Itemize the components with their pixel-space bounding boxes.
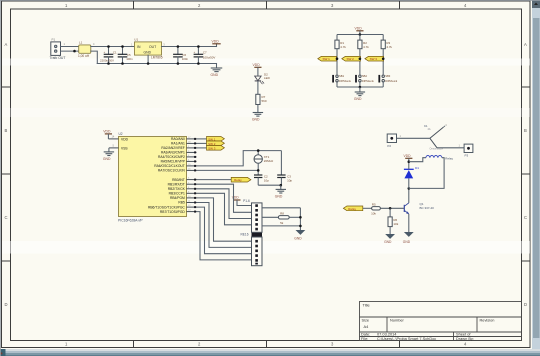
svg-text:RA2/AN2/VREF: RA2/AN2/VREF (161, 146, 184, 150)
wire header pin4 to R8 (262, 216, 278, 218)
svg-text:VDD: VDD (121, 137, 129, 141)
power VDD relay (404, 154, 413, 163)
resistor R6 10k (388, 208, 399, 234)
svg-text:Revision: Revision (480, 318, 495, 323)
wire R8 to gnd net (289, 216, 300, 218)
ground header (294, 230, 305, 240)
wire regulator OUT to VDD (162, 46, 217, 48)
svg-text:PIC16F628A-I/P: PIC16F628A-I/P (118, 219, 143, 223)
svg-text:VDD: VDD (103, 130, 111, 134)
transistor Q1 BC337-40 (404, 202, 434, 214)
svg-text:B: B (524, 128, 527, 133)
svg-text:1,00 uH: 1,00 uH (78, 54, 90, 58)
svg-text:RA6/OSC2/CLKOUT: RA6/OSC2/CLKOUT (154, 164, 185, 168)
svg-text:Number: Number (390, 318, 405, 323)
svg-text:Relay: Relay (445, 156, 453, 160)
svg-text:RB6/T1OSO/T1CKI/PGC: RB6/T1OSO/T1CKI/PGC (148, 205, 185, 209)
port Relay left (343, 206, 362, 211)
svg-text:A4: A4 (364, 324, 370, 329)
wire RB6 to header (197, 207, 252, 254)
ground mcu vss (103, 148, 114, 161)
wire RA1 to port (197, 142, 207, 144)
wire RB2 to header (197, 189, 252, 219)
wire R5 to base (380, 207, 404, 209)
svg-text:GND: GND (211, 73, 219, 77)
regulator U1 LM7805 (131, 38, 165, 65)
power VDD led (253, 63, 262, 76)
connector P1 Trafo OUT (50, 38, 66, 61)
button SB2 (355, 74, 374, 87)
svg-text:VDD: VDD (232, 196, 240, 200)
led D2 (255, 72, 271, 84)
light scan bands (2, 59, 530, 66)
svg-text:VDD: VDD (253, 63, 261, 67)
ground led (252, 113, 263, 122)
wire RB4 to header (197, 198, 252, 241)
svg-text:D: D (524, 302, 527, 307)
svg-text:5k: 5k (280, 221, 284, 225)
svg-text:LM7805: LM7805 (151, 56, 163, 60)
svg-text:RA0/AN0: RA0/AN0 (171, 137, 185, 141)
connector RE16 (241, 233, 263, 266)
wire RB7 to header (197, 212, 252, 260)
svg-text:OUT: OUT (149, 45, 156, 49)
ground xtal (275, 185, 286, 198)
button SB1 (332, 74, 351, 87)
wire port to R5 (363, 207, 372, 209)
svg-text:DIPMsunk: DIPMsunk (339, 79, 352, 83)
svg-text:C: C (5, 215, 8, 220)
svg-text:+: + (194, 50, 196, 54)
wire R7 to gnd (257, 105, 259, 113)
connector P1-6 (243, 199, 262, 232)
svg-text:C: C (524, 215, 527, 220)
resistor R3 4.7k (381, 35, 392, 75)
resistor R7 560 (256, 94, 267, 104)
svg-text:4.7k: 4.7k (386, 45, 392, 49)
svg-text:20MHz: 20MHz (264, 159, 274, 163)
wire collector up (408, 188, 410, 203)
svg-text:B: B (5, 128, 8, 133)
svg-text:P2: P2 (387, 144, 391, 148)
wire bridge lower out (91, 51, 98, 63)
svg-text:Size: Size (362, 318, 370, 323)
ground buttons (354, 87, 365, 101)
wire xtal right branch (280, 151, 282, 175)
svg-text:10p: 10p (287, 179, 292, 183)
svg-text:RB1/RX/DT: RB1/RX/DT (168, 182, 185, 186)
gnd rail psu (97, 63, 216, 65)
svg-text:P1: P1 (52, 38, 56, 42)
resistor R2 4.7k (358, 35, 369, 75)
svg-text:+: + (104, 50, 106, 54)
relay contact K1 (424, 124, 447, 150)
svg-text:100n: 100n (126, 57, 133, 61)
crystal XT1 20MHz (254, 149, 274, 175)
svg-text:SB3: SB3 (385, 74, 391, 78)
wire led to R7 (257, 81, 259, 94)
svg-text:4A: 4A (428, 128, 431, 131)
wire RA2 to port (197, 147, 207, 149)
svg-text:VSS: VSS (121, 146, 128, 150)
svg-text:D1: D1 (415, 166, 419, 170)
pin VSS 5 (109, 145, 119, 148)
svg-text:Relay: Relay (348, 207, 356, 211)
svg-text:U1: U1 (134, 38, 138, 42)
svg-text:VDD: VDD (212, 40, 220, 44)
port SW 2 left (342, 56, 361, 61)
svg-text:SB1: SB1 (339, 74, 345, 78)
svg-text:DIPMsunk: DIPMsunk (362, 79, 375, 83)
svg-text:P1-6: P1-6 (243, 199, 250, 203)
svg-text:C1: C1 (113, 50, 117, 54)
wire RB1 to header (197, 184, 252, 212)
relay coil K1 (409, 156, 454, 189)
capacitor C3 10p (277, 175, 292, 186)
wire RA6 to xtal top (197, 151, 282, 166)
wire RB3 to header (197, 193, 252, 225)
svg-text:4.7k: 4.7k (340, 45, 346, 49)
svg-text:RA1/AN1: RA1/AN1 (171, 142, 185, 146)
wire header pin6 right (262, 225, 300, 227)
svg-text:RA7/OSC1/CLKIN: RA7/OSC1/CLKIN (158, 169, 186, 173)
port SW 2 right (207, 141, 225, 146)
ground R6 (384, 234, 395, 244)
port Relay right (231, 177, 251, 182)
svg-text:GND: GND (252, 118, 260, 122)
svg-text:RB2/TX/CK: RB2/TX/CK (168, 187, 186, 191)
junction on lower wire (73, 50, 76, 53)
connector P2 (387, 134, 396, 148)
svg-text:4.7k: 4.7k (363, 45, 369, 49)
ground psu (211, 64, 222, 78)
svg-text:RB7/T1OSI/PGD: RB7/T1OSI/PGD (160, 210, 186, 214)
resistor R5 10k (371, 203, 380, 216)
capacitor C6 100n (174, 45, 189, 65)
resistor R1 4.7k (335, 35, 346, 75)
svg-text:RA3/AN3/CMP1: RA3/AN3/CMP1 (161, 151, 185, 155)
svg-text:SW 3: SW 3 (370, 57, 378, 61)
svg-text:GND: GND (103, 157, 111, 161)
svg-text:2200u/50V: 2200u/50V (100, 59, 114, 63)
capacitor C1 2200u/50V (100, 45, 117, 65)
svg-text:A: A (524, 42, 527, 47)
svg-text:U2: U2 (119, 132, 123, 136)
svg-text:RB0/INT: RB0/INT (172, 178, 185, 182)
capacitor C2 10p (254, 175, 269, 186)
port SW 1 right (207, 137, 225, 142)
svg-text:RA5/MCLR/VPP: RA5/MCLR/VPP (161, 160, 186, 164)
svg-text:SW 2: SW 2 (347, 57, 355, 61)
svg-text:GND: GND (275, 195, 283, 199)
svg-text:LED: LED (264, 76, 271, 80)
svg-text:C:\Users\..\Proba Smart 7.SchD: C:\Users\..\Proba Smart 7.SchDoc (377, 336, 436, 341)
wire P1 pin2 to bridge (61, 50, 79, 52)
svg-text:100n: 100n (182, 57, 189, 61)
svg-text:SW 3: SW 3 (208, 146, 216, 150)
wire RA7 to xtal bottom (197, 169, 259, 171)
svg-text:DIPMsunk: DIPMsunk (385, 79, 398, 83)
power VDD header (232, 196, 252, 206)
wire RB5 to header (197, 203, 252, 248)
svg-text:L1: L1 (79, 41, 83, 45)
connector P3 (464, 144, 473, 158)
svg-text:Drawn By:: Drawn By: (456, 336, 474, 341)
wire P2 to contact (397, 137, 430, 139)
svg-text:File:: File: (361, 336, 368, 341)
svg-text:GND: GND (354, 97, 362, 101)
wire bridge to regulator IN (91, 46, 135, 48)
wire emitter down (408, 214, 410, 232)
svg-text:Relay: Relay (234, 178, 242, 182)
mcu U2 PIC16F628A (118, 132, 197, 222)
svg-text:RB3/CCP1: RB3/CCP1 (169, 192, 185, 196)
svg-text:GND: GND (384, 240, 392, 244)
svg-text:SW 1: SW 1 (323, 57, 331, 61)
svg-text:RB4/PGM: RB4/PGM (170, 196, 185, 200)
wire header pin2 right (262, 207, 300, 209)
svg-text:A: A (5, 42, 8, 47)
svg-text:R8: R8 (280, 212, 284, 216)
svg-text:RB5: RB5 (178, 201, 185, 205)
svg-text:GND: GND (294, 236, 302, 240)
svg-text:VDD: VDD (355, 27, 363, 31)
pin numbers U2 (188, 137, 191, 212)
svg-text:Title: Title (363, 303, 370, 308)
svg-text:C7: C7 (203, 50, 207, 54)
button SB3 (378, 74, 397, 87)
power VDD buttons (355, 27, 364, 35)
svg-text:BC 337-40: BC 337-40 (420, 206, 435, 210)
svg-text:100u/50V: 100u/50V (203, 56, 215, 60)
diode D1 (404, 162, 419, 189)
port SW 3 right (207, 146, 225, 151)
svg-text:10p: 10p (264, 179, 269, 183)
svg-text:10k: 10k (393, 222, 398, 226)
svg-text:10k: 10k (371, 212, 376, 216)
port SW 3 left (365, 56, 385, 61)
svg-text:IN: IN (137, 45, 141, 49)
ground Q1 (403, 232, 414, 244)
svg-text:D: D (5, 302, 8, 307)
filter L1 (64, 41, 96, 58)
svg-text:560: 560 (262, 99, 267, 103)
port SW 1 left (318, 56, 339, 61)
power VDD mcu (103, 130, 112, 139)
wire RB0 to port (197, 179, 232, 181)
wire RA0 to port (197, 138, 207, 140)
wire P1 pin1 to bridge (61, 46, 79, 48)
title block (360, 302, 522, 341)
svg-text:RE16: RE16 (241, 233, 249, 237)
svg-text:GND: GND (144, 51, 152, 55)
capacitor C7 100u/50V (194, 45, 216, 65)
svg-text:R5: R5 (372, 203, 376, 207)
gnd rail buttons (337, 86, 383, 88)
svg-text:Trafo OUT: Trafo OUT (50, 56, 66, 60)
svg-text:SB2: SB2 (362, 74, 368, 78)
vdd rail (337, 34, 383, 36)
wire gnd vertical (299, 208, 301, 230)
svg-text:RA4/T0CKI/CMP2: RA4/T0CKI/CMP2 (158, 155, 185, 159)
svg-text:P3: P3 (465, 154, 469, 158)
resistor R8 5k (278, 212, 289, 225)
power VDD psu (212, 40, 221, 47)
svg-text:GND: GND (403, 240, 411, 244)
gnd rail xtal (258, 184, 281, 186)
svg-text:VDD: VDD (404, 154, 412, 158)
wire contact to P3 (437, 147, 464, 149)
capacitor C5 100n (118, 45, 133, 65)
pin VDD 14 (108, 136, 118, 139)
